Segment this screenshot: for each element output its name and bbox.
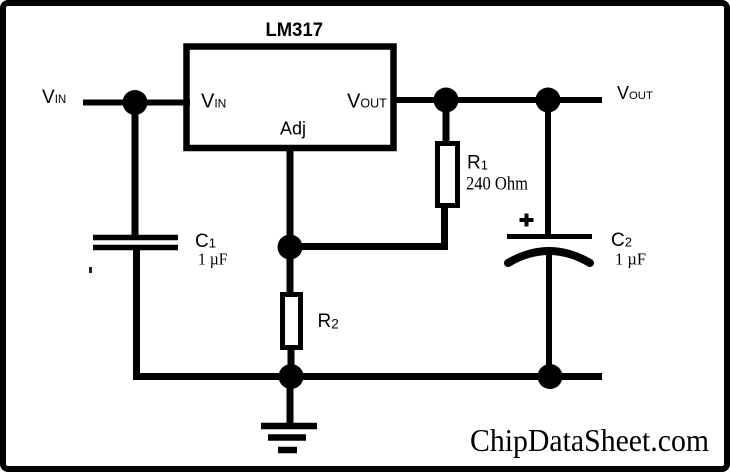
ground symbol xyxy=(261,426,317,450)
wire Adj pin down xyxy=(287,148,294,296)
wire node E down to ground symbol xyxy=(287,376,294,424)
svg-text:ChipDataSheet.com: ChipDataSheet.com xyxy=(470,422,709,458)
node B output junction at R1 xyxy=(434,88,459,113)
op-amp U1 LM317 regulator box xyxy=(187,47,394,149)
resistor R1 xyxy=(438,144,458,206)
svg-text:240 Ohm: 240 Ohm xyxy=(466,174,528,195)
wire C2 branch from node C down xyxy=(545,100,551,237)
capacitor C1 top plate xyxy=(93,235,178,241)
node A input junction xyxy=(123,90,148,115)
svg-text:Adj: Adj xyxy=(280,119,306,139)
label C2 plus polarity xyxy=(520,214,534,227)
node C output junction at C2 xyxy=(536,88,561,113)
wire C1 down to ground rail xyxy=(133,247,140,379)
wire input node down to C1 xyxy=(132,102,139,238)
wire R1 bottom to adj net xyxy=(290,205,445,247)
wire ground rail xyxy=(133,373,602,380)
node F ground junction C2 xyxy=(538,364,563,389)
svg-text:1 µF: 1 µF xyxy=(615,250,646,269)
node D adj junction xyxy=(278,235,303,260)
wire R2 bottom to ground rail xyxy=(288,346,295,378)
capacitor C1 bottom plate xyxy=(93,245,178,251)
artifact tick mark xyxy=(89,267,92,273)
wire node B down to R1 xyxy=(443,100,450,145)
wire VOUT lead xyxy=(393,97,602,103)
wire VIN input lead xyxy=(83,100,190,106)
capacitor C2 curved plate xyxy=(508,251,590,263)
svg-text:LM317: LM317 xyxy=(266,20,324,41)
resistor R2 xyxy=(283,295,301,348)
svg-text:1 µF: 1 µF xyxy=(198,250,228,269)
wire C2 down to ground rail xyxy=(546,252,552,378)
capacitor C2 top plate xyxy=(507,234,592,239)
node E ground junction R2 xyxy=(279,364,304,389)
